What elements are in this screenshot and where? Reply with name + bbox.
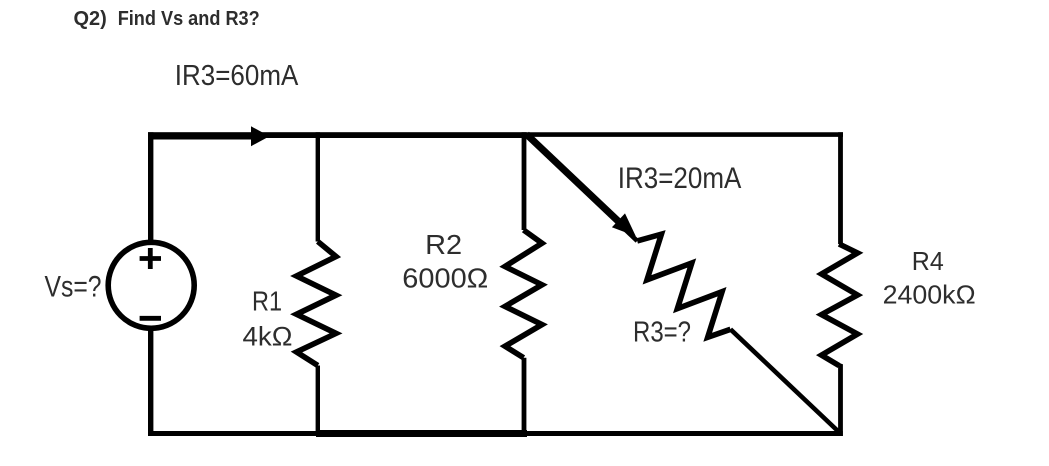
- resistor R1 leads: [316, 132, 320, 433]
- wire bottom rail: [148, 431, 843, 436]
- svg-text:Q2): Q2): [74, 8, 107, 30]
- svg-text:R2: R2: [425, 229, 462, 260]
- resistor R2 zigzag: [505, 230, 542, 358]
- svg-text:4kΩ: 4kΩ: [243, 321, 293, 351]
- current arrow IR3=20mA annotation: [527, 134, 619, 221]
- voltage source U1 circle: [108, 242, 194, 328]
- resistor R4 leads: [839, 132, 840, 436]
- minus sign: [140, 316, 161, 321]
- svg-text:6000Ω: 6000Ω: [402, 263, 488, 294]
- resistor R2 leads: [522, 132, 527, 433]
- svg-text:R3=?: R3=?: [633, 317, 691, 349]
- svg-text:2400kΩ: 2400kΩ: [883, 280, 976, 310]
- resistor R4 zigzag: [822, 244, 858, 366]
- wire left rail upper: [148, 132, 153, 241]
- svg-text:IR3=60mA: IR3=60mA: [175, 60, 299, 92]
- svg-text:R1: R1: [252, 286, 282, 317]
- wire top rail overlap (left of R2 node): [148, 132, 527, 138]
- wire left rail lower: [148, 330, 153, 436]
- wire top rail: [148, 132, 843, 137]
- svg-text:R4: R4: [912, 246, 944, 276]
- plus sign: [140, 248, 161, 269]
- resistor R3 zigzag: [637, 234, 730, 337]
- svg-text:Vs=?: Vs=?: [45, 271, 102, 304]
- wire bottom overlap segment between R1 and R2: [316, 430, 527, 437]
- resistor R3 lead lower: [731, 329, 841, 433]
- resistor R3 diagonal lead upper: [527, 136, 638, 241]
- current arrow IR3 on top wire: [151, 133, 252, 140]
- svg-text:IR3=20mA: IR3=20mA: [618, 162, 742, 195]
- resistor R1 zigzag: [297, 242, 337, 366]
- svg-text:Find Vs and R3?: Find Vs and R3?: [118, 8, 260, 30]
